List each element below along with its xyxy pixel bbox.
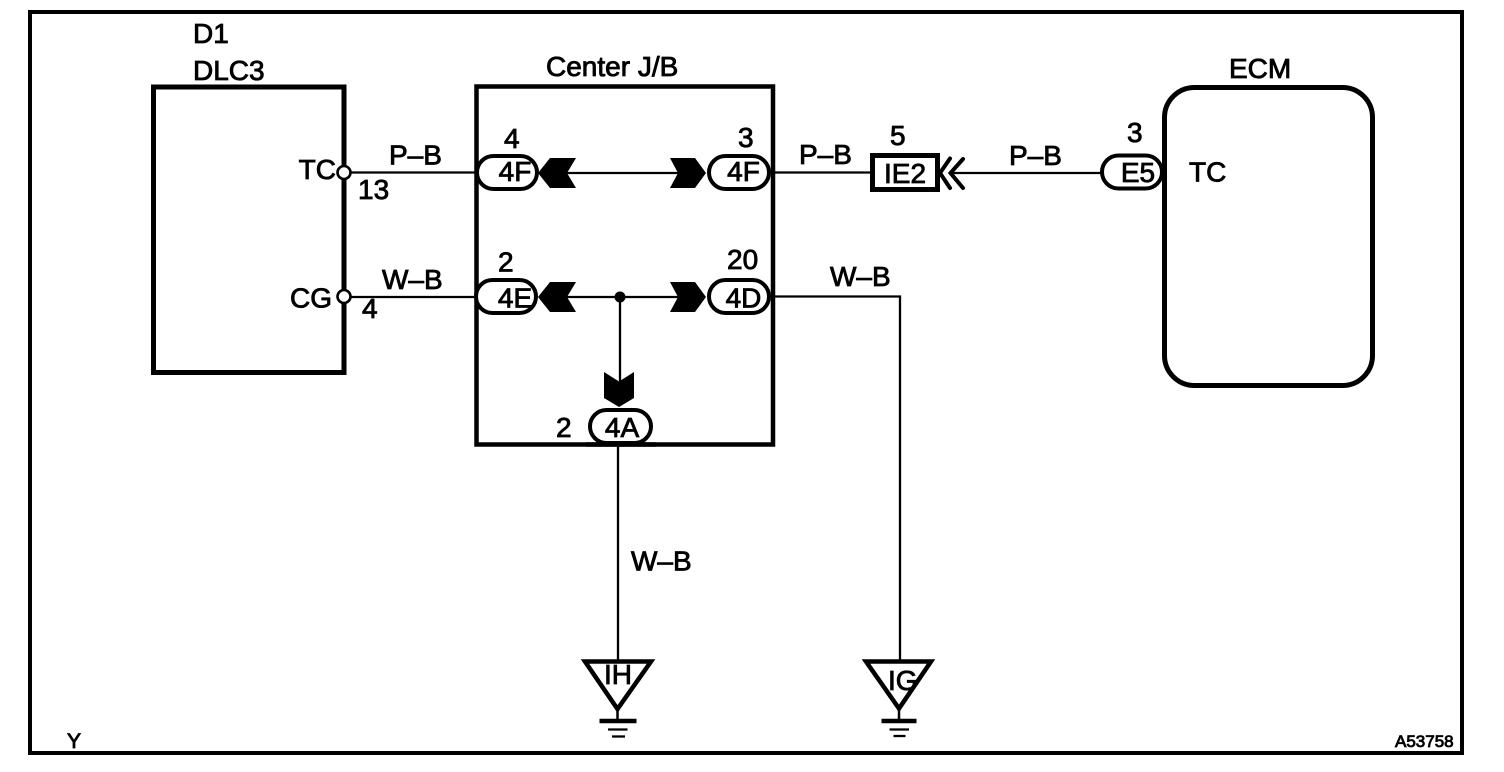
box ECM bbox=[1165, 88, 1373, 386]
arrow down to 4A bbox=[604, 372, 634, 407]
wire IE2 to E5 bbox=[950, 172, 1103, 174]
wire 4D to IG ground bbox=[771, 297, 900, 661]
svg-text:IH: IH bbox=[604, 659, 632, 690]
svg-text:DLC3: DLC3 bbox=[193, 55, 265, 86]
arrow left row1 bbox=[538, 158, 576, 188]
wire junction to down arrow bbox=[619, 297, 621, 382]
box Center J/B bbox=[477, 87, 774, 445]
double chevron at IE2 bbox=[940, 159, 963, 189]
wire TC to 4F bbox=[351, 171, 477, 173]
connector pill 4F right bbox=[709, 156, 769, 189]
arrow right row1 bbox=[670, 158, 706, 188]
svg-text:4F: 4F bbox=[727, 156, 760, 187]
svg-text:P–B: P–B bbox=[389, 140, 442, 171]
svg-text:P–B: P–B bbox=[799, 139, 852, 170]
svg-text:TC: TC bbox=[1189, 157, 1226, 188]
wire between 4F arrows bbox=[567, 172, 678, 174]
wire 4F to IE2 bbox=[771, 171, 872, 173]
svg-text:4A: 4A bbox=[605, 412, 640, 443]
box D1 DLC3 bbox=[154, 87, 345, 373]
arrow right row2 bbox=[670, 282, 706, 312]
svg-text:TC: TC bbox=[299, 154, 336, 185]
connector pill 4D bbox=[709, 280, 769, 314]
svg-text:4E: 4E bbox=[498, 283, 532, 314]
svg-text:5: 5 bbox=[890, 120, 906, 151]
svg-text:P–B: P–B bbox=[1009, 140, 1062, 171]
wire CG to 4E bbox=[351, 296, 477, 298]
connector pill 4E bbox=[476, 280, 536, 314]
connector pill 4A bbox=[586, 410, 656, 445]
connector pill 4F left bbox=[477, 156, 537, 189]
svg-text:Y: Y bbox=[67, 730, 81, 753]
svg-text:A53758: A53758 bbox=[1395, 732, 1454, 751]
wire between 4E and 4D arrows bbox=[567, 296, 678, 298]
junction node bbox=[615, 292, 626, 303]
svg-text:W–B: W–B bbox=[382, 264, 443, 295]
svg-text:4F: 4F bbox=[499, 156, 532, 187]
svg-text:4: 4 bbox=[362, 293, 378, 324]
connector pill E5 bbox=[1102, 156, 1162, 189]
arrow left row2 bbox=[538, 282, 576, 312]
svg-text:13: 13 bbox=[358, 174, 389, 205]
svg-text:4: 4 bbox=[504, 123, 520, 154]
svg-text:ECM: ECM bbox=[1229, 53, 1291, 84]
svg-text:W–B: W–B bbox=[830, 261, 891, 292]
ground IG bbox=[866, 662, 931, 737]
pin circle CG bbox=[338, 290, 351, 303]
svg-text:2: 2 bbox=[498, 247, 514, 278]
svg-text:3: 3 bbox=[738, 122, 754, 153]
svg-text:Center J/B: Center J/B bbox=[546, 51, 678, 82]
ground IH bbox=[585, 659, 651, 737]
pin circle TC bbox=[338, 166, 351, 179]
svg-text:IG: IG bbox=[888, 665, 918, 696]
svg-text:IE2: IE2 bbox=[884, 158, 926, 189]
connector IE2 box bbox=[873, 156, 938, 190]
svg-text:D1: D1 bbox=[193, 18, 229, 49]
svg-text:4D: 4D bbox=[726, 283, 762, 314]
svg-text:CG: CG bbox=[290, 283, 332, 314]
svg-text:W–B: W–B bbox=[631, 546, 692, 577]
svg-text:E5: E5 bbox=[1121, 157, 1155, 188]
svg-text:2: 2 bbox=[556, 412, 572, 443]
svg-text:20: 20 bbox=[727, 244, 758, 275]
wire 4A to IH ground bbox=[617, 444, 619, 660]
svg-text:3: 3 bbox=[1127, 117, 1143, 148]
